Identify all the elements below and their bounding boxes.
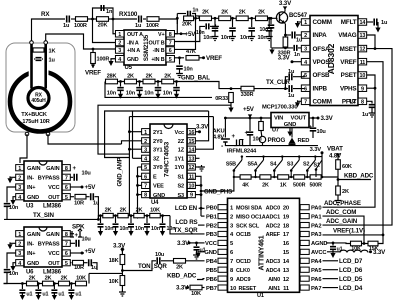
svg-text:VCC: VCC bbox=[48, 185, 59, 191]
resistor 330R sense bbox=[241, 86, 254, 91]
junction +IN B bbox=[178, 56, 181, 59]
junction ladder1-4 bbox=[268, 17, 271, 20]
op-amp U6 LM386 body bbox=[24, 227, 62, 267]
svg-text:18: 18 bbox=[283, 223, 290, 229]
wire bbox=[337, 195, 339, 199]
IC U2 AD8302 body bbox=[310, 16, 358, 106]
wire VMAG bbox=[367, 35, 375, 49]
U6 pin 1 bbox=[16, 231, 24, 238]
svg-text:IN-: IN- bbox=[27, 242, 34, 248]
svg-text:10: 10 bbox=[189, 184, 195, 190]
svg-text:VMAG: VMAG bbox=[338, 32, 357, 39]
ground ladder2-3 bbox=[155, 94, 160, 99]
svg-text:4.8V: 4.8V bbox=[329, 153, 342, 160]
svg-text:RX: RX bbox=[41, 11, 50, 18]
wire bbox=[100, 227, 102, 231]
wire TX_SQR to PB3 bbox=[170, 216, 205, 234]
svg-text:5: 5 bbox=[144, 165, 147, 171]
U1 header box VCC bbox=[218, 240, 227, 245]
svg-text:1u: 1u bbox=[49, 58, 56, 64]
U2 pin 6 bbox=[301, 85, 310, 92]
wire U4 left pin bbox=[138, 184, 142, 186]
svg-text:S4: S4 bbox=[270, 162, 276, 168]
svg-text:VREF: VREF bbox=[206, 55, 222, 62]
resistor 330R bbox=[283, 37, 288, 47]
svg-text:OFSB: OFSB bbox=[313, 72, 330, 79]
wire rail B loop bbox=[105, 111, 209, 158]
capacitor 1u RX bbox=[67, 16, 70, 23]
ground ladder1-3 bbox=[248, 35, 255, 41]
capacitor 1n feedback2 bbox=[188, 11, 191, 17]
svg-text:S5A: S5A bbox=[247, 162, 257, 168]
junction ladder3-4 bbox=[146, 214, 149, 217]
ground ladder2-1 bbox=[118, 94, 123, 99]
wire bbox=[37, 284, 39, 290]
svg-text:LCD EN: LCD EN bbox=[175, 205, 198, 212]
capacitor 10n OUT B bbox=[206, 23, 209, 29]
junction 2Y1 bbox=[128, 130, 131, 133]
svg-text:9: 9 bbox=[361, 86, 364, 92]
U5 pin 7 bbox=[166, 39, 175, 46]
capacitor 10u power bbox=[247, 132, 254, 135]
wire bbox=[293, 75, 304, 77]
wire bbox=[21, 293, 23, 296]
ground PFLT bbox=[369, 111, 376, 117]
svg-text:CLK0: CLK0 bbox=[236, 268, 250, 274]
svg-text:175uH 10R: 175uH 10R bbox=[22, 119, 49, 125]
coil TX+BUCK winding bbox=[10, 72, 70, 132]
svg-text:12: 12 bbox=[360, 47, 366, 53]
svg-text:OC1D: OC1D bbox=[236, 259, 251, 265]
junction S2 pole bbox=[306, 169, 309, 172]
wire LCD_D5 bbox=[323, 278, 339, 280]
power 3.3V bbox=[317, 117, 320, 120]
wire PB1 bbox=[201, 215, 205, 217]
wire bbox=[120, 91, 122, 94]
U2 pin 10 bbox=[358, 72, 367, 79]
junction bbox=[249, 117, 252, 120]
resistor 2K key-2 bbox=[260, 175, 271, 179]
wire ladder3 bbox=[98, 216, 170, 220]
svg-text:500R: 500R bbox=[309, 183, 322, 189]
svg-text:AGND: AGND bbox=[311, 241, 327, 247]
power +5V bbox=[81, 186, 84, 189]
wire power rail bottom bbox=[225, 143, 318, 146]
svg-text:BYPASS: BYPASS bbox=[38, 176, 60, 182]
svg-text:7: 7 bbox=[304, 99, 307, 105]
arrow 3.3V PB7 bbox=[186, 286, 189, 289]
resistor 10R U6 bbox=[73, 260, 84, 265]
svg-text:14: 14 bbox=[189, 147, 195, 153]
resistor 1K key-3 bbox=[278, 175, 289, 179]
svg-text:2: 2 bbox=[144, 139, 147, 145]
wire bbox=[139, 91, 141, 94]
ground AGND bbox=[330, 253, 335, 258]
svg-text:PB1: PB1 bbox=[206, 214, 218, 220]
svg-text:GND: GND bbox=[27, 195, 39, 201]
capacitor 1u U6 out bbox=[89, 259, 92, 266]
svg-text:1: 1 bbox=[144, 130, 147, 136]
svg-text:U5: U5 bbox=[125, 65, 133, 71]
wire ladder1 entry bbox=[196, 16, 200, 18]
wire bbox=[268, 31, 270, 35]
wire V+ to 5V bbox=[174, 33, 186, 35]
junction ladder2-3 bbox=[157, 80, 160, 83]
svg-text:12: 12 bbox=[189, 165, 195, 171]
capacitor u1 AGND bbox=[330, 247, 336, 250]
U3 pin 7 bbox=[62, 174, 70, 181]
svg-text:5: 5 bbox=[65, 195, 68, 201]
wire LCD_D4 bbox=[323, 287, 339, 289]
svg-text:1Y0: 1Y0 bbox=[174, 165, 184, 171]
capacitor 10u BYPASS U3 bbox=[74, 174, 77, 181]
capacitor u1 VCC bbox=[194, 247, 200, 250]
U1 header box PB3 bbox=[218, 231, 227, 236]
U1 header box AVCC bbox=[300, 249, 309, 254]
svg-text:ADC_COM: ADC_COM bbox=[326, 209, 356, 216]
wire bbox=[199, 57, 203, 59]
wire U4 left pin bbox=[138, 175, 142, 177]
junction MSET bbox=[374, 47, 377, 50]
wire bbox=[377, 22, 379, 26]
wire AVCC bbox=[327, 251, 340, 253]
wire 3Y1 bbox=[129, 148, 141, 150]
svg-text:ADC_PHASE: ADC_PHASE bbox=[324, 200, 361, 207]
svg-text:7: 7 bbox=[144, 184, 147, 190]
svg-text:2K: 2K bbox=[127, 74, 134, 80]
resistor 2K KBD bbox=[336, 186, 341, 195]
wire bbox=[260, 131, 263, 137]
U1 header box PA4 bbox=[300, 258, 309, 263]
wire key chain bbox=[234, 176, 338, 178]
U6 pin 4 bbox=[16, 260, 24, 267]
svg-text:100R: 100R bbox=[146, 23, 159, 29]
wire +IN B bbox=[174, 57, 184, 59]
svg-text:8: 8 bbox=[65, 232, 68, 238]
junction ladder4-4 bbox=[70, 282, 73, 285]
wire V+ rail drop bbox=[174, 18, 177, 33]
wire LCD_EN to PB0 bbox=[199, 207, 205, 209]
svg-text:ATTINY461: ATTINY461 bbox=[259, 235, 266, 270]
svg-text:10n: 10n bbox=[9, 205, 19, 211]
wire bbox=[260, 118, 262, 121]
wire bbox=[214, 18, 216, 27]
U1 header box AGND bbox=[300, 240, 309, 245]
svg-text:8: 8 bbox=[65, 166, 68, 172]
svg-text:2K: 2K bbox=[221, 10, 228, 16]
svg-text:2K: 2K bbox=[105, 208, 112, 214]
resistor 18K bbox=[120, 255, 125, 265]
svg-text:-IN B: -IN B bbox=[153, 48, 165, 54]
svg-text:10u: 10u bbox=[82, 171, 92, 177]
wire bbox=[284, 35, 286, 37]
wire bbox=[312, 118, 314, 127]
svg-text:1K: 1K bbox=[49, 48, 56, 54]
svg-text:IN+: IN+ bbox=[27, 185, 36, 191]
resistor 2K ladder1-1 bbox=[200, 16, 212, 21]
svg-text:LCD_D5: LCD_D5 bbox=[339, 276, 363, 283]
wire TX_SIN bbox=[4, 218, 98, 220]
ground ladder1-4 bbox=[266, 35, 273, 41]
wire feedback2 right bbox=[192, 14, 196, 19]
junction ladder4-1 bbox=[21, 282, 24, 285]
capacitor u1 ladder4-2 bbox=[35, 290, 41, 293]
ground 0R33 bbox=[228, 108, 233, 113]
junction VOUT bbox=[312, 117, 315, 120]
svg-text:2K: 2K bbox=[61, 276, 68, 282]
ground U5 bbox=[108, 61, 113, 66]
wire bbox=[121, 265, 123, 277]
ground U3 GND bbox=[10, 200, 15, 205]
U2 pin 5 bbox=[301, 72, 310, 79]
resistor 10R U3 bbox=[75, 194, 86, 199]
svg-text:10R: 10R bbox=[74, 265, 84, 271]
wire bbox=[293, 87, 304, 89]
capacitor 1u bbox=[36, 58, 42, 61]
wire KBD_ADC bbox=[338, 179, 371, 181]
capacitor 1u INPB bbox=[289, 85, 292, 92]
svg-text:VPOS: VPOS bbox=[313, 59, 330, 66]
regulator U7 MCP1700 body bbox=[271, 113, 309, 128]
svg-text:S5B: S5B bbox=[226, 162, 236, 168]
svg-text:VBAT: VBAT bbox=[327, 146, 343, 153]
U4 pin 6 bbox=[142, 173, 150, 180]
U4 pin 5 bbox=[142, 164, 150, 171]
arrow 3.3V collector bbox=[283, 6, 287, 10]
U5 pin 6 bbox=[166, 47, 175, 54]
ground ladder3-1 bbox=[98, 231, 103, 236]
U2 pin 1 bbox=[301, 19, 310, 26]
wire bbox=[70, 284, 72, 290]
power 3.3V bbox=[369, 250, 372, 253]
U4 pin 16 bbox=[187, 129, 195, 136]
svg-text:MISO OC1A: MISO OC1A bbox=[236, 214, 266, 220]
svg-text:3: 3 bbox=[144, 147, 147, 153]
junction PB0 bbox=[200, 207, 203, 210]
svg-text:VCC: VCC bbox=[205, 241, 218, 247]
svg-text:10n: 10n bbox=[260, 27, 269, 33]
junction ladder3-2 bbox=[114, 214, 117, 217]
svg-text:OUT B: OUT B bbox=[148, 41, 164, 47]
wire bbox=[268, 18, 270, 27]
switch S3 bbox=[291, 157, 299, 177]
svg-text:9: 9 bbox=[190, 193, 193, 199]
svg-text:1u: 1u bbox=[135, 23, 142, 29]
svg-text:1u: 1u bbox=[381, 20, 388, 26]
node coil C bbox=[25, 132, 29, 136]
capacitor 10n ladder3-4 bbox=[144, 224, 150, 227]
svg-text:AIN0: AIN0 bbox=[268, 277, 280, 283]
wire bbox=[143, 18, 146, 20]
wire base cap bbox=[270, 18, 272, 24]
resistor 2K ladder2-3 bbox=[143, 79, 155, 84]
svg-text:U1: U1 bbox=[257, 293, 264, 299]
junction S4 top bbox=[281, 155, 283, 157]
U1 header box PA3 bbox=[300, 231, 309, 236]
svg-text:SSM2135: SSM2135 bbox=[143, 34, 150, 61]
wire 4.8V stub bbox=[337, 154, 339, 161]
wire bbox=[115, 216, 117, 223]
wire rail gnd-bal bbox=[105, 82, 212, 98]
svg-text:11: 11 bbox=[283, 286, 290, 292]
svg-text:3.3V: 3.3V bbox=[279, 0, 292, 7]
wire to PB4 bbox=[186, 260, 205, 262]
junction S1 pole bbox=[315, 168, 318, 171]
U1 header box GND bbox=[218, 249, 227, 254]
U4 pin 7 bbox=[142, 182, 150, 189]
U1 header box PB2 bbox=[218, 222, 227, 227]
ground ladder1-2 bbox=[229, 35, 236, 41]
resistor 2K ladder2-2 bbox=[125, 79, 137, 84]
U3 pin 5 bbox=[62, 194, 70, 201]
U6 pin 6 bbox=[62, 250, 70, 257]
svg-text:PB0: PB0 bbox=[206, 205, 217, 211]
wire to -IN A bbox=[93, 19, 117, 43]
svg-text:AIN1: AIN1 bbox=[268, 286, 280, 292]
svg-text:RED: RED bbox=[298, 138, 310, 144]
resistor PROG pullup bbox=[259, 122, 264, 131]
arrow 3.3V VCC bbox=[188, 241, 191, 244]
svg-text:1: 1 bbox=[118, 32, 121, 38]
capacitor 10n ladder3-5 bbox=[160, 224, 166, 227]
resistor 500R key-4 bbox=[294, 175, 305, 179]
capacitor 10n ladder2-2 bbox=[136, 88, 143, 91]
svg-text:1: 1 bbox=[18, 166, 21, 172]
resistor 100R RX bbox=[76, 17, 88, 22]
resistor 2K ladder4-1 bbox=[27, 281, 38, 286]
svg-text:VOUT: VOUT bbox=[290, 116, 306, 122]
wire ladder4 bbox=[4, 283, 86, 285]
wire battery top bbox=[224, 118, 226, 138]
svg-text:405uH: 405uH bbox=[31, 98, 46, 104]
resistor 4K key-1 bbox=[240, 175, 251, 179]
wire VOUT bbox=[309, 117, 318, 119]
wire bbox=[371, 108, 373, 112]
ground ladder1-1 bbox=[212, 35, 219, 41]
junction KBD_ADC bbox=[337, 178, 340, 181]
junction GND_PHS bbox=[200, 190, 203, 193]
svg-text:GND_BAL: GND_BAL bbox=[181, 75, 210, 82]
svg-text:u1: u1 bbox=[42, 292, 48, 298]
wire bbox=[179, 69, 181, 72]
svg-text:2: 2 bbox=[230, 214, 233, 220]
junction VCC cap bbox=[195, 242, 198, 245]
wire BYPASS U6 bbox=[71, 242, 76, 244]
resistor 0R33 bbox=[229, 93, 234, 103]
junction S5A pole bbox=[254, 169, 257, 172]
svg-text:10n: 10n bbox=[9, 271, 19, 277]
resistor 28K ladder2-1 bbox=[106, 79, 118, 84]
svg-text:+IN B: +IN B bbox=[151, 57, 164, 63]
svg-text:11: 11 bbox=[189, 174, 195, 180]
junction 330R bottom bbox=[284, 47, 287, 50]
svg-text:13: 13 bbox=[283, 268, 290, 274]
wire LCD_D6 bbox=[323, 269, 339, 271]
svg-text:V+: V+ bbox=[158, 32, 164, 38]
svg-text:PA4: PA4 bbox=[311, 259, 322, 265]
svg-text:6: 6 bbox=[65, 185, 68, 191]
svg-text:16: 16 bbox=[283, 241, 290, 247]
wire LED top bbox=[291, 128, 293, 138]
junction S5A top bbox=[262, 155, 264, 157]
U1 header box PA0 bbox=[300, 205, 309, 210]
svg-text:TX_SIN: TX_SIN bbox=[33, 212, 54, 219]
resistor 10K ladder4-4 bbox=[76, 281, 87, 286]
junction ladder3-5 bbox=[161, 214, 164, 217]
svg-text:10u: 10u bbox=[155, 252, 165, 258]
wire bbox=[21, 284, 23, 290]
wire LCD_RS to PB2 bbox=[198, 224, 205, 226]
junction S5B foot bbox=[233, 176, 235, 178]
svg-text:E: E bbox=[153, 175, 157, 181]
wire MFLT bbox=[367, 21, 373, 23]
svg-text:2K: 2K bbox=[29, 276, 36, 282]
svg-text:U7: U7 bbox=[272, 128, 279, 134]
wire bbox=[157, 91, 159, 94]
junction S2 top bbox=[314, 155, 316, 157]
svg-text:BC547: BC547 bbox=[289, 13, 308, 19]
wire LCD_D7 bbox=[323, 260, 339, 262]
svg-text:1Z: 1Z bbox=[178, 147, 185, 153]
wire RX to cap bbox=[32, 19, 66, 41]
junction 0R33 bbox=[230, 87, 233, 90]
U2 pin 7 bbox=[301, 98, 310, 105]
ground MFLT bbox=[375, 28, 380, 33]
svg-text:2: 2 bbox=[304, 33, 307, 39]
ground KBD bbox=[335, 199, 342, 205]
svg-text:2: 2 bbox=[18, 175, 21, 181]
junction 3Y1 bbox=[128, 148, 131, 151]
U4 pin 9 bbox=[187, 192, 195, 199]
svg-text:2K: 2K bbox=[146, 74, 153, 80]
wire U6 IN- bbox=[10, 242, 16, 244]
resistor 1K bbox=[33, 48, 44, 52]
U4 pin 2 bbox=[142, 138, 150, 145]
ground ladder3-2 bbox=[113, 231, 118, 236]
wire bbox=[177, 13, 186, 15]
svg-text:PB2: PB2 bbox=[206, 223, 217, 229]
junction S5B pole bbox=[233, 169, 236, 172]
resistor 10K adc bbox=[351, 241, 362, 246]
svg-text:ADC4: ADC4 bbox=[266, 268, 281, 274]
wire -IN B bbox=[174, 18, 196, 49]
capacitor 10u VOUT bbox=[310, 128, 317, 131]
svg-text:19: 19 bbox=[283, 214, 290, 220]
wire PFLT bbox=[367, 101, 372, 103]
svg-text:1u: 1u bbox=[288, 69, 295, 75]
ground U1 GND pin bbox=[195, 253, 200, 258]
resistor 2K ladder1-2 bbox=[219, 16, 231, 21]
svg-text:28K: 28K bbox=[107, 74, 117, 80]
wire COMM1 bbox=[298, 21, 302, 23]
junction S4 foot bbox=[273, 176, 275, 178]
svg-text:KBD_ADC: KBD_ADC bbox=[167, 273, 197, 280]
ground U3 IN- bbox=[7, 178, 12, 183]
wire bbox=[70, 293, 72, 296]
junction ladder3-1 bbox=[99, 214, 102, 217]
wire bbox=[251, 31, 253, 35]
ground COMM7 bbox=[295, 102, 300, 107]
junction ladder2-2 bbox=[138, 80, 141, 83]
wire VPHS bbox=[367, 87, 375, 89]
ground U6 IN- bbox=[7, 244, 12, 249]
wire bbox=[337, 169, 339, 186]
wire bbox=[120, 82, 122, 87]
wire rail A loop bbox=[98, 105, 231, 154]
wire bbox=[146, 216, 148, 223]
wire OUT U3 bbox=[71, 196, 75, 198]
svg-text:PB5: PB5 bbox=[206, 268, 218, 274]
